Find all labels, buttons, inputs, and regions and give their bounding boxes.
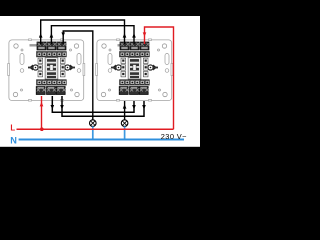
- arrow on wire at S1 T3: [61, 32, 65, 36]
- junction dot on L line: [40, 127, 44, 131]
- N line (neutral rail): [19, 139, 184, 141]
- arrow on traveller A right: [132, 105, 136, 110]
- wire: traveller 2 (S1 top T2 to S2 top T2): [51, 26, 134, 44]
- wire: lamp E1 neutral (blue): [92, 126, 94, 139]
- wire: traveller 1 (S1 top T1 to S2 top T1): [41, 20, 125, 44]
- arrow on red wire at S1 bottom: [40, 102, 44, 107]
- arrow on wire at S2 T1: [123, 33, 127, 38]
- arrow on traveller B right: [142, 105, 146, 110]
- wire: red L feed to S1 bottom: [41, 96, 43, 129]
- lamp E1: [90, 120, 97, 127]
- switch S2 plate: [96, 39, 173, 101]
- white paper background: [0, 0, 200, 164]
- wire: lamp E2 neutral (blue): [124, 126, 126, 139]
- bottom transparent margin (black): [0, 147, 200, 164]
- svg-text:L: L: [10, 124, 15, 133]
- arrow on wire at S1 T2: [50, 33, 54, 38]
- arrow on lamp E2 wire: [123, 104, 127, 109]
- arrow on traveller A left: [51, 105, 55, 110]
- wire: S1 top T3 to lamp E1: [63, 31, 93, 120]
- arrow on wire at S1 T1: [39, 33, 43, 38]
- top transparent margin (black): [0, 0, 200, 16]
- wire: bottom traveller B (S1 bottom to S2 bottom): [62, 96, 144, 116]
- svg-text:230 V~: 230 V~: [161, 132, 187, 141]
- wire: red L feed to S2 top T3: [145, 27, 174, 129]
- wire: bottom traveller A (S1 bottom to S2 bottom): [52, 96, 134, 112]
- switch S1 plate: [8, 39, 85, 101]
- arrow on traveller B left: [60, 105, 64, 110]
- wire: S2 bottom to lamp E2: [124, 101, 126, 120]
- lamp E2: [121, 120, 128, 127]
- switch S2 mechanism: [111, 42, 158, 95]
- svg-text:N: N: [10, 135, 17, 145]
- L line (phase rail): [17, 128, 174, 130]
- switch S1 mechanism: [28, 42, 75, 95]
- arrow on red wire at S2 T3: [143, 32, 147, 36]
- arrow on wire at S2 T2: [132, 33, 136, 38]
